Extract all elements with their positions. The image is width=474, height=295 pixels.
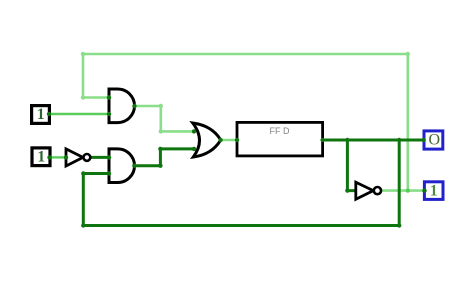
pin dot IN1 output (47, 112, 51, 116)
pin dot OR output (218, 138, 222, 142)
and-gate AND2 (109, 149, 135, 183)
junction dot FF out to NOT2 branch (345, 138, 349, 142)
pin dot FF D input (235, 138, 239, 142)
input pin IN2 (32, 148, 50, 166)
pin dot AND2 output (132, 164, 136, 168)
svg-text:FF D: FF D (270, 126, 290, 136)
inverter NOT2 (356, 182, 381, 199)
wire NOT1 output to AND2 top input (low) (91, 156, 110, 159)
pin dot output 1 input (422, 188, 426, 192)
pin dot output O input (422, 138, 426, 142)
pin dot IN2 output (47, 155, 51, 159)
inverter NOT1 (66, 149, 90, 166)
wire feedback left vertical (82, 174, 85, 226)
junction corner dot OR top in (159, 129, 163, 133)
wire branch down to NOT2 input (347, 140, 355, 191)
output pin O (424, 131, 443, 149)
wire AND2 output to OR bottom input (134, 149, 194, 166)
wire net1 left vertical (82, 54, 85, 98)
pin dot AND1 input2 (107, 112, 111, 116)
svg-text:1: 1 (37, 148, 45, 165)
junction corner dot feedback bottom-right (397, 223, 401, 227)
wire FF D output to output pin O (323, 139, 424, 142)
or-gate OR1 (193, 123, 221, 157)
wire input pin IN1 to AND1 bottom input (49, 113, 109, 115)
junction corner dot AND2 out (158, 164, 162, 168)
wire OR output to FF D input (221, 139, 237, 142)
junction corner dot OR bottom in (158, 147, 162, 151)
pin dot AND2 input1 (107, 155, 111, 159)
pin dot NOT1 input (64, 155, 68, 159)
wire net1 right vertical (406, 54, 409, 191)
wire AND1 output to OR top input (135, 106, 195, 131)
junction dot net1 at NOT2 output wire (406, 188, 410, 192)
wire net1 top feedback horizontal (high) (83, 53, 408, 56)
output pin OUT1 (424, 182, 443, 200)
wire into AND2 bottom input (83, 172, 109, 175)
junction corner dot net1 left (81, 95, 85, 99)
pin dot NOT2 input (345, 188, 349, 192)
junction corner dot feedback bottom-left (81, 223, 85, 227)
wire net1 into AND1 top input (83, 96, 109, 99)
junction dot FF out to feedback branch (397, 138, 401, 142)
pin dot OR input1 (192, 129, 196, 133)
pin dot AND1 input1 (107, 95, 111, 99)
and-gate AND1 (109, 89, 135, 123)
wire NOT2 output to output pin 1 (381, 189, 425, 192)
svg-text:O: O (429, 132, 441, 149)
junction corner dot net1 top-left (81, 52, 85, 56)
junction corner dot AND1 out (159, 104, 163, 108)
wire feedback right vertical (398, 140, 401, 226)
input pin IN1 (32, 106, 50, 124)
svg-text:1: 1 (430, 183, 438, 200)
junction corner dot net1 top-right (406, 52, 410, 56)
wire feedback bottom horizontal (83, 224, 399, 227)
svg-text:1: 1 (37, 106, 45, 123)
pin dot AND2 input2 (107, 171, 111, 175)
pin dot AND1 output (132, 104, 136, 108)
pin dot OR input2 (192, 147, 196, 151)
wire input pin IN2 to NOT1 input (50, 156, 66, 158)
pin dot FF D output (320, 138, 324, 142)
junction corner dot feedback left (81, 171, 85, 175)
flip-flop FF D (237, 122, 323, 155)
